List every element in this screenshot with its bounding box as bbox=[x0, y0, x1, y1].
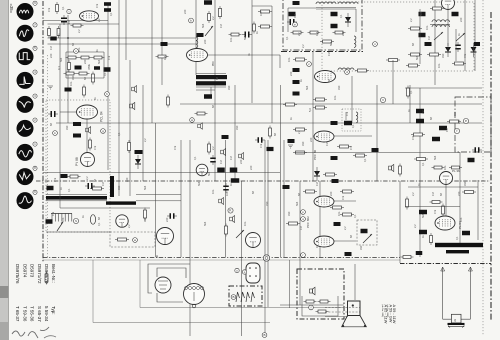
wire y=206.5 bbox=[405, 206, 460, 208]
wire det bbox=[345, 112, 347, 120]
resistor R55 bbox=[340, 190, 354, 193]
rail y=20.5 bbox=[43, 20, 108, 22]
resistor R28 bbox=[313, 98, 327, 101]
svg-text:470k: 470k bbox=[87, 63, 91, 70]
resistor R35 bbox=[353, 154, 367, 157]
capacitor C5 block bbox=[75, 66, 82, 70]
resistor R64 in dashed box bbox=[115, 238, 129, 241]
svg-text:e: e bbox=[465, 119, 467, 123]
resistor R11 bbox=[83, 85, 86, 98]
svg-text:f: f bbox=[457, 129, 458, 133]
capacitor C48 block bbox=[217, 168, 225, 173]
tuner coil L2 bbox=[316, 2, 336, 4]
svg-text:2,2: 2,2 bbox=[211, 146, 215, 150]
circled test point q bbox=[301, 217, 306, 222]
resistor R6 bbox=[79, 56, 92, 59]
coil L4 bbox=[354, 36, 356, 47]
line transformer bar lower bbox=[106, 201, 136, 204]
mains plug skirt bbox=[448, 326, 464, 328]
wire yoke lead upper bbox=[136, 194, 181, 196]
node dot A bbox=[67, 37, 69, 39]
interlock contacts bbox=[236, 292, 255, 302]
socket wiring loop inner bbox=[148, 264, 190, 293]
resistor R21 bbox=[291, 31, 304, 34]
capacitor C12 block bbox=[204, 0, 212, 5]
capacitor C45 block bbox=[334, 222, 341, 226]
svg-text:2,2: 2,2 bbox=[211, 16, 215, 20]
tube V12 small round bbox=[196, 164, 208, 176]
svg-text:2,2: 2,2 bbox=[297, 32, 301, 36]
vertical rail x=252 bbox=[251, 0, 253, 103]
resistor R10 bbox=[92, 72, 95, 85]
svg-text:1M: 1M bbox=[49, 46, 53, 50]
wire top right of IF bbox=[252, 5, 272, 7]
resistor R38 bbox=[408, 53, 422, 56]
svg-text:=35=: =35= bbox=[9, 4, 14, 14]
resistor R47 bbox=[462, 191, 476, 194]
motor double circle bbox=[263, 255, 269, 261]
vertical rail x=181 bbox=[180, 140, 182, 257]
svg-text:10n: 10n bbox=[333, 95, 337, 100]
wire det out bbox=[334, 135, 372, 137]
svg-text:10n: 10n bbox=[437, 63, 441, 68]
svg-text:47k: 47k bbox=[411, 135, 415, 140]
capacitor C53 bbox=[167, 213, 177, 219]
right dotted rail bbox=[482, 0, 484, 336]
resistor R16 bbox=[229, 33, 242, 36]
resistor R43 bbox=[411, 133, 425, 136]
capacitor C33 block bbox=[425, 42, 432, 46]
vertical rail x=465 bbox=[464, 0, 466, 71]
test point number 6 bbox=[33, 190, 37, 194]
vertical rail x=352 bbox=[351, 76, 353, 123]
svg-text:330: 330 bbox=[301, 141, 305, 146]
switch S3 diagonal bbox=[363, 234, 372, 243]
svg-text:330: 330 bbox=[143, 217, 147, 222]
wire V2 grid bbox=[60, 111, 76, 113]
vertical rail x=225 bbox=[225, 140, 227, 257]
svg-text:1M: 1M bbox=[327, 52, 331, 56]
capacitor C1 block bbox=[104, 2, 111, 6]
vertical rail x=377 bbox=[376, 85, 378, 181]
svg-text:PCF 80: PCF 80 bbox=[313, 149, 317, 160]
focus comb connector bbox=[51, 214, 72, 222]
vertical rail x=460 bbox=[459, 152, 461, 243]
resistor R70 bbox=[386, 59, 400, 62]
tube V3 PY88 damper bbox=[81, 153, 95, 167]
svg-text:5k6: 5k6 bbox=[295, 201, 299, 206]
resistor R51 bbox=[430, 233, 433, 245]
vertical rail x=475 bbox=[474, 0, 476, 71]
svg-text:2,2: 2,2 bbox=[127, 224, 131, 228]
resistor R17 bbox=[253, 22, 256, 34]
svg-text:2,2: 2,2 bbox=[77, 29, 81, 33]
resistor R3 bbox=[48, 26, 51, 38]
dash-dot box right middle bbox=[455, 97, 491, 152]
svg-text:5k6: 5k6 bbox=[305, 85, 309, 90]
rail y=38 bbox=[48, 37, 197, 39]
svg-text:10n: 10n bbox=[425, 25, 429, 30]
test point number 9 bbox=[33, 1, 37, 5]
wire tr b bbox=[447, 9, 449, 46]
circled B2 bbox=[262, 333, 267, 338]
line transformer bar vertical bbox=[110, 176, 114, 197]
V16 electrode dots bbox=[249, 267, 257, 277]
svg-text:47k: 47k bbox=[173, 145, 177, 150]
svg-text:6: 6 bbox=[454, 318, 456, 322]
lower chassis border dash-dot upper bbox=[43, 257, 400, 259]
svg-text:0,1: 0,1 bbox=[409, 90, 413, 94]
ground sym 1 bbox=[48, 86, 53, 89]
vertical rail x=241 bbox=[241, 181, 243, 336]
circled test point v bbox=[380, 97, 385, 102]
svg-text:5k6: 5k6 bbox=[419, 11, 423, 16]
scan page left edge strip bbox=[0, 0, 9, 340]
tuner inner wire b bbox=[288, 7, 316, 9]
resistor R71 bbox=[68, 60, 71, 72]
svg-text:220: 220 bbox=[203, 39, 207, 44]
resistor R5 bbox=[66, 56, 79, 59]
capacitor C16 block bbox=[289, 12, 296, 17]
chassis boundary left dash-dot bbox=[42, 1, 44, 262]
tube V1 EL-stage bbox=[80, 11, 99, 21]
comb arrow bbox=[57, 222, 63, 231]
svg-text:0,1: 0,1 bbox=[97, 222, 101, 226]
loudspeaker foot right bbox=[364, 325, 368, 328]
svg-text:47k: 47k bbox=[93, 145, 97, 150]
capacitor C4 block bbox=[50, 37, 57, 41]
svg-text:1M: 1M bbox=[163, 56, 167, 60]
svg-text:220: 220 bbox=[341, 31, 345, 36]
socket wiring loop outer bbox=[157, 268, 186, 278]
svg-text:10n: 10n bbox=[61, 217, 65, 222]
dotted enclosure sound section bbox=[46, 100, 110, 232]
svg-text:2,2: 2,2 bbox=[97, 18, 101, 22]
vertical rail x=284 bbox=[283, 140, 285, 257]
vertical rail x=235 bbox=[234, 85, 236, 181]
circled test point b bbox=[189, 18, 194, 23]
svg-text:0,1: 0,1 bbox=[285, 36, 289, 40]
resistor R49 bbox=[430, 201, 443, 204]
capacitor C23 block bbox=[344, 121, 352, 126]
wire y=90 stub bbox=[196, 89, 215, 91]
transformer T2 secondary bbox=[432, 25, 450, 27]
diode D3 bbox=[445, 43, 451, 57]
test point number 7 bbox=[33, 23, 37, 27]
speaker symbol m6 bbox=[132, 86, 137, 93]
svg-text:330: 330 bbox=[117, 185, 121, 190]
tube V9 PL84 frame output bbox=[435, 216, 455, 230]
loudspeaker cone bbox=[342, 316, 366, 327]
vertical rail x=190 bbox=[189, 140, 191, 336]
svg-text:220: 220 bbox=[457, 119, 461, 124]
svg-text:220: 220 bbox=[239, 159, 243, 164]
capacitor C25 block bbox=[288, 139, 295, 143]
resistor R22 bbox=[308, 31, 321, 34]
svg-text:850: 850 bbox=[211, 61, 215, 66]
capacitor C26 block bbox=[331, 156, 338, 160]
capacitor C10 block bbox=[73, 134, 81, 138]
capacitor C51 bbox=[210, 155, 216, 165]
wire T1 left stub bbox=[195, 61, 197, 75]
svg-text:10n: 10n bbox=[459, 217, 463, 222]
circled test point d bbox=[345, 70, 350, 75]
capacitor C40 block bbox=[419, 230, 427, 235]
tuner core line 2 bbox=[316, 8, 356, 10]
dash-dot box interlock bbox=[229, 286, 262, 306]
resistor R15 bbox=[208, 11, 211, 23]
resistor R54 bbox=[303, 190, 317, 193]
tube V7 top right bbox=[442, 0, 455, 10]
resistor R4 bbox=[57, 26, 60, 38]
svg-text:A 65 - 11W: A 65 - 11W bbox=[384, 305, 389, 324]
svg-text:1M: 1M bbox=[299, 226, 303, 230]
vertical rail x=280 bbox=[280, 85, 282, 257]
resistor R58 bbox=[330, 206, 344, 209]
speaker symbol m2 bbox=[239, 153, 244, 160]
vertical rail x=162 bbox=[161, 0, 163, 85]
rail y=24 bbox=[48, 23, 120, 25]
handwritten mark bbox=[12, 327, 49, 338]
horizontal section border dash-dot bbox=[36, 180, 490, 182]
resistor R73 bbox=[401, 256, 414, 259]
tube V5 PCF80 a bbox=[315, 71, 336, 83]
svg-text:47k: 47k bbox=[341, 195, 345, 200]
resistor R68 bbox=[316, 310, 329, 313]
svg-text:5k6: 5k6 bbox=[201, 23, 205, 28]
resistor R63 bbox=[144, 208, 147, 221]
svg-text:10n: 10n bbox=[225, 191, 229, 196]
svg-text:220: 220 bbox=[459, 17, 463, 22]
vertical rail x=155 bbox=[155, 123, 157, 257]
resistor R23 bbox=[333, 31, 346, 34]
mains lead right bbox=[468, 267, 472, 319]
circled test point s bbox=[73, 218, 78, 223]
svg-text:0,1: 0,1 bbox=[353, 214, 357, 218]
svg-text:1M: 1M bbox=[229, 156, 233, 160]
capacitor C21 block bbox=[293, 80, 300, 84]
svg-text:0,1: 0,1 bbox=[61, 6, 65, 10]
svg-text:0,1: 0,1 bbox=[117, 132, 121, 136]
svg-text:2,2: 2,2 bbox=[413, 224, 417, 228]
svg-text:220: 220 bbox=[49, 53, 53, 58]
svg-text:T 65-37: T 65-37 bbox=[15, 306, 20, 322]
IF transformer T1 winding bottom bbox=[196, 81, 226, 85]
capacitor C28 block bbox=[419, 12, 426, 17]
wire yoke lead lower bbox=[136, 200, 181, 202]
svg-text:T 59-36: T 59-36 bbox=[22, 306, 27, 322]
svg-text:10n: 10n bbox=[243, 221, 247, 226]
vertical rail x=60 bbox=[59, 24, 61, 196]
small circle u1 bbox=[235, 268, 239, 272]
resistor R52 bbox=[323, 173, 337, 176]
resistor R50 bbox=[442, 204, 445, 217]
svg-text:220: 220 bbox=[457, 191, 461, 196]
wire behind speaker dashed a bbox=[325, 307, 360, 309]
svg-text:r: r bbox=[303, 253, 304, 257]
svg-text:0,1: 0,1 bbox=[339, 14, 343, 18]
svg-text:47k: 47k bbox=[47, 7, 51, 12]
svg-text:220: 220 bbox=[125, 177, 129, 182]
svg-text:220: 220 bbox=[309, 137, 313, 142]
resistor R45 bbox=[414, 158, 428, 161]
resistor R53 bbox=[399, 164, 402, 177]
dash-dot enclosure tuner top bbox=[283, 0, 362, 50]
svg-text:5k6: 5k6 bbox=[207, 171, 211, 176]
transformer T2 core bbox=[430, 24, 450, 26]
svg-text:220: 220 bbox=[249, 165, 253, 170]
vertical rail x=126 bbox=[125, 0, 127, 60]
svg-text:0,1: 0,1 bbox=[351, 124, 355, 128]
resistor R65 bbox=[45, 272, 48, 285]
svg-text:10n: 10n bbox=[77, 47, 81, 52]
capacitor C47 block bbox=[345, 252, 352, 256]
oscillogram test point 8 photo bbox=[17, 168, 34, 185]
svg-text:PY 88: PY 88 bbox=[75, 157, 79, 166]
ground sym 2 bbox=[288, 145, 293, 148]
tube V4 IF pentode bbox=[187, 49, 208, 62]
tube V8 PL36 line output bbox=[440, 172, 453, 185]
svg-text:5k6: 5k6 bbox=[203, 221, 207, 226]
vertical rail x=152 bbox=[151, 0, 153, 123]
capacitor C63 block bbox=[416, 251, 423, 255]
test point number 1 bbox=[33, 142, 37, 146]
svg-text:5k6: 5k6 bbox=[433, 155, 437, 160]
potentiometer wiper bbox=[205, 26, 213, 36]
circled test point k bbox=[53, 131, 58, 136]
svg-text:1M: 1M bbox=[315, 182, 319, 186]
svg-text:330: 330 bbox=[71, 75, 75, 80]
svg-text:5k6: 5k6 bbox=[59, 57, 63, 62]
circled e2 bbox=[293, 22, 298, 27]
diode D4 bbox=[471, 43, 477, 57]
socket wiring loop lower bbox=[157, 293, 183, 302]
capacitor C2 block bbox=[104, 8, 111, 12]
capacitor C37 block bbox=[432, 137, 440, 142]
tube V15 small bbox=[116, 215, 128, 227]
resistor R27 bbox=[283, 103, 297, 106]
svg-text:10n: 10n bbox=[229, 37, 233, 42]
svg-text:5k6: 5k6 bbox=[197, 181, 201, 186]
grid stopper R2 bbox=[71, 24, 84, 27]
resistor R37 bbox=[408, 27, 422, 30]
svg-text:5k6: 5k6 bbox=[143, 185, 147, 190]
resistor R67 bbox=[318, 300, 331, 303]
tube V13 triode socket bbox=[157, 228, 174, 245]
svg-text:Best.-Nr.:: Best.-Nr.: bbox=[51, 264, 56, 283]
svg-text:47k: 47k bbox=[95, 3, 99, 8]
circled test point t1 bbox=[67, 9, 71, 13]
svg-text:330: 330 bbox=[453, 111, 457, 116]
oscillogram test point 7 photo bbox=[17, 25, 34, 42]
diode D5 bbox=[314, 167, 320, 181]
dashed box convergence bbox=[357, 220, 377, 245]
svg-text:2,2: 2,2 bbox=[411, 192, 415, 196]
tube V2 PCL84 triode-pentode bbox=[77, 105, 98, 119]
IF transformer T1 lead bottom bbox=[196, 86, 226, 88]
svg-text:10n: 10n bbox=[259, 11, 263, 16]
svg-text:2,2: 2,2 bbox=[85, 176, 89, 180]
chassis boundary right dash-dot bbox=[490, 12, 492, 320]
circled test point w2 bbox=[190, 118, 195, 123]
capacitor C31 bbox=[455, 42, 461, 52]
svg-text:1M: 1M bbox=[325, 142, 329, 146]
tube V10 PCF802 a bbox=[314, 196, 334, 207]
circled test point r bbox=[301, 253, 306, 258]
resistor R13 bbox=[128, 140, 131, 153]
svg-text:5k6: 5k6 bbox=[421, 213, 425, 218]
capacitor C36 block bbox=[439, 126, 447, 131]
svg-text:47k: 47k bbox=[345, 111, 349, 116]
test point number 3 bbox=[33, 94, 37, 98]
scan edge dark smudge bbox=[0, 286, 9, 298]
wire tr c bbox=[455, 29, 457, 61]
oscillogram test point 3 photo bbox=[17, 96, 34, 113]
capacitor C15 block bbox=[161, 42, 168, 46]
capacitor C55 block bbox=[47, 186, 54, 191]
loudspeaker coupling symbol bbox=[86, 127, 91, 134]
capacitor C9 block bbox=[73, 122, 81, 126]
svg-text:D5974: D5974 bbox=[22, 264, 27, 278]
capacitor C39 block bbox=[419, 210, 427, 215]
svg-text:0,1: 0,1 bbox=[421, 162, 425, 166]
svg-text:47k: 47k bbox=[463, 53, 467, 58]
diode D1 boost bbox=[135, 155, 141, 169]
tube socket small circle bbox=[155, 277, 171, 293]
vertical rail x=68 bbox=[67, 15, 69, 123]
svg-text:2,2: 2,2 bbox=[409, 18, 413, 22]
svg-text:B: B bbox=[263, 333, 265, 337]
svg-text:0,1: 0,1 bbox=[363, 158, 367, 162]
circled fuse bbox=[309, 305, 314, 310]
resistor R36 bbox=[430, 7, 444, 10]
svg-text:220: 220 bbox=[83, 59, 87, 64]
wire tr a bbox=[419, 9, 421, 64]
svg-text:1M: 1M bbox=[431, 192, 435, 196]
switch S2 diagonal bbox=[456, 33, 465, 41]
wire cluster a bbox=[66, 51, 104, 53]
svg-text:5 59-34: 5 59-34 bbox=[44, 306, 49, 322]
capacitor C42 bbox=[472, 147, 482, 153]
svg-text:5k6: 5k6 bbox=[329, 41, 333, 46]
vertical rail x=265 bbox=[264, 140, 266, 336]
wire ll a bbox=[60, 207, 150, 209]
resistor R9 bbox=[77, 72, 90, 75]
capacitor C59 block bbox=[94, 66, 100, 70]
resistor R25 bbox=[293, 58, 307, 61]
capacitor C18 block bbox=[331, 24, 338, 29]
oscillogram test point 6 photo bbox=[17, 192, 34, 209]
dotted box ratio detector bbox=[342, 109, 361, 131]
svg-text:D5969/70: D5969/70 bbox=[44, 264, 49, 284]
svg-text:0,1: 0,1 bbox=[103, 72, 107, 76]
line transformer bar horizontal bbox=[46, 196, 107, 200]
svg-text:1M: 1M bbox=[445, 128, 449, 132]
oscillogram test point 9 photo bbox=[17, 3, 34, 20]
resistor R30 bbox=[293, 128, 307, 131]
vertical rail x=320 bbox=[319, 181, 321, 257]
capacitor C30 block bbox=[419, 33, 426, 38]
mains lead left bbox=[441, 267, 445, 319]
right lower border dash-dot bbox=[400, 263, 491, 265]
resistor R40 bbox=[452, 62, 466, 65]
capacitor C56 block bbox=[61, 174, 68, 178]
IF transformer T1 winding top bbox=[196, 75, 227, 79]
coil L5 bbox=[338, 68, 354, 70]
svg-text:330: 330 bbox=[265, 201, 269, 206]
wire speaker top feed bbox=[354, 264, 356, 300]
capacitor C58 block bbox=[204, 94, 212, 99]
